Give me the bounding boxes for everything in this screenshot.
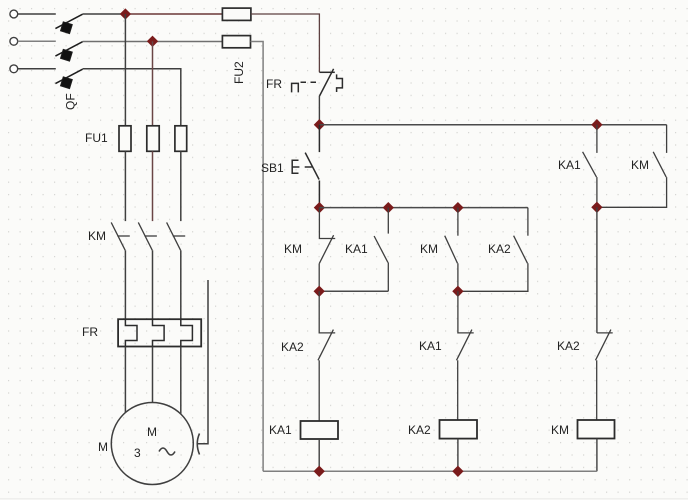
wire FR contact to node1 (318, 96, 320, 125)
FR heater symbol (292, 83, 299, 92)
contactor KM main pole 3 (167, 222, 186, 250)
wire phase2 QF to FU2 fuse2 (83, 41, 223, 43)
contact KA2 NC branch E (596, 330, 613, 420)
svg-text:KA2: KA2 (557, 339, 580, 353)
node junction bottom x319 (314, 466, 325, 477)
node junction top rail left (314, 119, 325, 130)
FR heater element 2 (153, 319, 165, 346)
wire FR to motor 1 (124, 347, 126, 413)
svg-text:QF: QF (64, 93, 78, 110)
wire FU1 pole1 to KM (124, 151, 126, 221)
contact KA2 branch D (458, 208, 528, 292)
breaker QF pole 1 (55, 14, 82, 33)
wire branch E drop (596, 207, 598, 333)
wire L2 to QF (18, 40, 56, 42)
svg-text:3: 3 (134, 446, 141, 460)
wire phase1 QF to FU2 fuse1 (83, 13, 126, 15)
wire L1 to QF (18, 13, 56, 15)
FR heater element 1 (125, 319, 137, 346)
wire KM pole2 to FR (152, 250, 154, 319)
overload relay FR box (118, 319, 201, 346)
contact KM branch F (597, 125, 667, 208)
svg-text:KM: KM (284, 242, 302, 256)
svg-text:M: M (147, 425, 157, 439)
node junction row2 x458 (452, 202, 463, 213)
wire FR to motor 2 (152, 347, 154, 403)
fuse FU1 pole 1 (119, 126, 131, 152)
contact KA1 NC branch C (457, 291, 474, 420)
coil KM (578, 420, 615, 439)
contact KA1 branch E (583, 125, 597, 208)
svg-text:FU2: FU2 (232, 61, 246, 84)
node junction row2 x388 (383, 202, 394, 213)
wire KM pole1 to FR (124, 250, 126, 319)
breaker QF pole 3 (55, 69, 82, 88)
node junction merge C (452, 286, 463, 297)
wire bottom rail (263, 470, 597, 472)
wire coil KA2 to bottom rail (457, 439, 459, 472)
wire FR to motor 3 (180, 347, 182, 414)
contact KM branch C (445, 208, 458, 292)
svg-text:KA1: KA1 (558, 158, 581, 172)
svg-text:KM: KM (551, 423, 569, 437)
wire row2 rail (319, 207, 528, 209)
coil KA1 (301, 421, 339, 439)
coil KA2 (440, 420, 478, 439)
contactor KM main pole 1 (111, 222, 130, 250)
node junction phase1 (120, 8, 131, 19)
FR heater element 3 (181, 319, 193, 346)
terminal L2 (10, 37, 18, 45)
node junction phase2 (147, 36, 158, 47)
svg-text:KA1: KA1 (345, 242, 368, 256)
wire L3 to QF (18, 68, 56, 70)
wire FU1 pole3 to KM (180, 151, 182, 221)
terminal L1 (10, 10, 18, 18)
fuse FU2 lower (222, 36, 250, 48)
svg-text:KA2: KA2 (281, 340, 304, 354)
motor shaft lead (198, 280, 208, 444)
svg-text:KA1: KA1 (269, 423, 292, 437)
svg-text:KA2: KA2 (408, 423, 431, 437)
wire phase3 QF to corner (83, 69, 181, 126)
wire FU1 pole2 to KM (152, 151, 154, 221)
node junction merge A (314, 286, 325, 297)
node junction row2 x319 (314, 202, 325, 213)
motor shaft arc (197, 434, 199, 455)
contactor KM main pole 2 (138, 222, 157, 250)
wire phase1 drop to FU1 (124, 14, 126, 126)
wire coil KM to bottom rail (596, 439, 598, 472)
wire phase1 junction to fuse (125, 13, 222, 15)
svg-text:KA1: KA1 (419, 339, 442, 353)
contact KM aux branch A (319, 208, 335, 292)
svg-text:FU1: FU1 (85, 131, 108, 145)
svg-text:KA2: KA2 (488, 242, 511, 256)
wire fuse1 out to control drop (251, 14, 320, 72)
breaker QF pole 2 (55, 42, 82, 61)
svg-text:M: M (98, 440, 108, 454)
motor sine symbol (159, 448, 175, 455)
wire fuse2 out to left rail (251, 42, 264, 472)
fuse FU1 pole 3 (175, 126, 187, 152)
motor M circle (111, 403, 193, 485)
svg-text:KM: KM (420, 242, 438, 256)
wire top rail (319, 124, 666, 126)
pushbutton SB1 (292, 125, 319, 208)
wire phase2 drop to FU1 (152, 41, 154, 126)
wire coil KA1 to bottom rail (318, 439, 320, 471)
svg-text:KM: KM (631, 158, 649, 172)
FR control contact (319, 69, 342, 96)
fuse FU1 pole 2 (147, 126, 159, 152)
wire KM pole3 to FR (180, 250, 182, 319)
contact KA2 NC branch A (318, 291, 335, 421)
svg-text:FR: FR (266, 77, 282, 91)
node junction merge E (591, 202, 602, 213)
svg-text:FR: FR (82, 325, 98, 339)
terminal L3 (10, 65, 18, 73)
bottom window edge (0, 498, 688, 499)
svg-text:KM: KM (88, 229, 106, 243)
node junction bottom x458 (452, 466, 463, 477)
FR dashed link (301, 81, 319, 83)
svg-text:SB1: SB1 (261, 161, 284, 175)
wire merge A-B (319, 290, 388, 292)
contact KA1 branch B (374, 208, 388, 292)
node junction top rail right (591, 119, 602, 130)
fuse FU2 upper (222, 8, 251, 20)
